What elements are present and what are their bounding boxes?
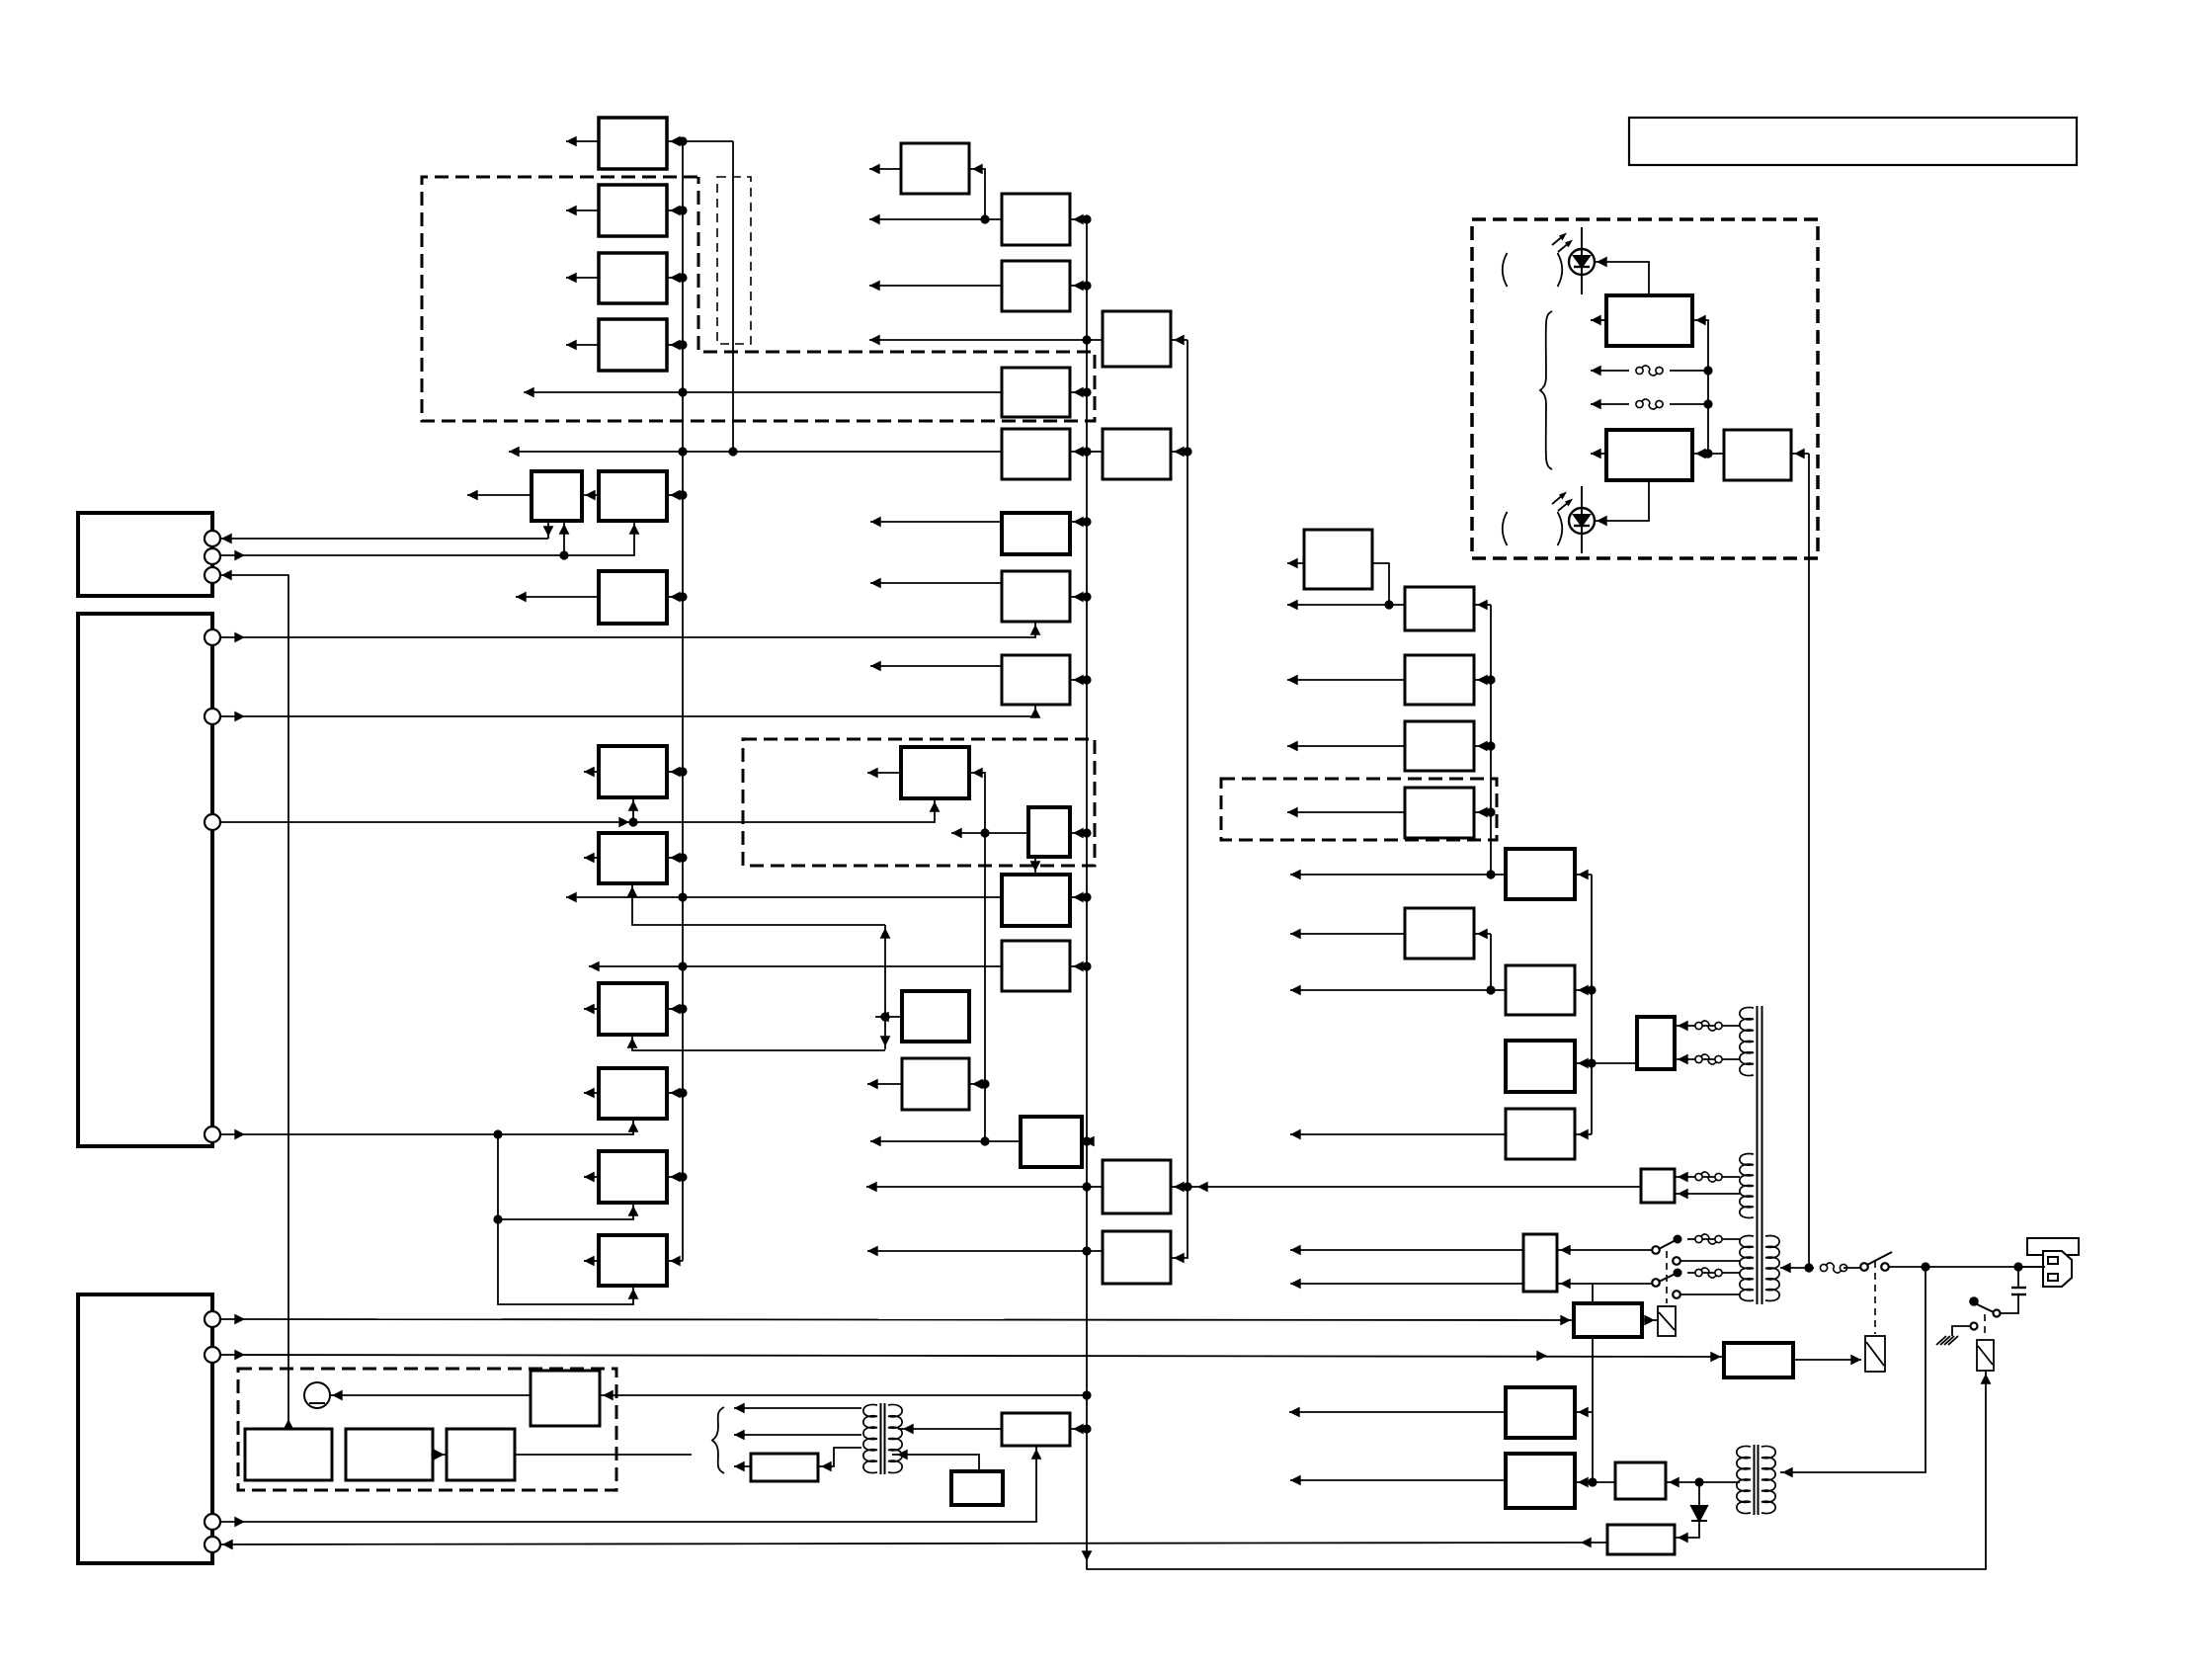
arrowhead U3 output xyxy=(566,273,577,284)
block U39 (in dashed enclosure C) xyxy=(1405,788,1474,838)
wire net y344 xyxy=(869,339,1103,341)
arrowhead into T2 sec tap2 xyxy=(897,1450,908,1460)
arrowhead up into U8 bottom xyxy=(628,800,639,811)
wire U60 output east xyxy=(515,1454,692,1456)
dashed enclosure C (around U24) xyxy=(1221,779,1497,840)
block U44 xyxy=(1506,1109,1575,1159)
junction x1720 y1500 xyxy=(1694,1477,1703,1486)
wire vertical x1611 xyxy=(1591,875,1593,1134)
wire diode D1 bottom lead xyxy=(1675,1521,1699,1538)
wire U35 right elbow xyxy=(1372,563,1389,605)
wire S4 alt to T1C xyxy=(1680,1293,1740,1295)
transformer T2 secondary xyxy=(888,1404,902,1472)
LED D2 (top indicator) emission arrow 2 xyxy=(1558,240,1573,253)
wire U12 right stub xyxy=(667,1176,683,1178)
dashed enclosure D (servo group, bottom left) xyxy=(238,1369,616,1490)
transformer T1 primary (right) xyxy=(1765,1235,1779,1300)
junction x1202 y1201 xyxy=(1183,1182,1191,1191)
wire vertical x896 xyxy=(884,925,886,1049)
arrowhead into U53 right xyxy=(1578,1407,1589,1418)
arrowhead into U50 left xyxy=(1560,1315,1571,1326)
arrowhead into U48 y1072 xyxy=(1678,1054,1688,1065)
arrowhead U8 output xyxy=(584,767,595,778)
switch S3 throw circle xyxy=(1652,1246,1660,1254)
wire J1-2 to U5/U6 bottoms xyxy=(221,521,634,555)
block U25 xyxy=(1002,655,1070,705)
paren left of D2 xyxy=(1503,253,1508,287)
dashed relay link K1 xyxy=(1874,1261,1876,1334)
wire U8 output left xyxy=(584,771,599,773)
wire vertical x1949 xyxy=(1780,1267,1925,1472)
pin circle J2-4 xyxy=(205,1127,220,1142)
wire U11 right stub xyxy=(667,1092,683,1094)
wire net y1500 b xyxy=(1666,1481,1738,1483)
breaker T1A y1038 xyxy=(1695,1021,1722,1031)
arrowhead up into relay K2 xyxy=(1981,1374,1992,1384)
wire net y945 xyxy=(1290,933,1405,935)
arrowhead net y755 left end xyxy=(1287,741,1298,752)
brace left of T2 xyxy=(712,1407,724,1473)
junction x691 y908 xyxy=(678,892,687,901)
arrowhead net y1498 left end xyxy=(1290,1475,1301,1486)
wire net y1299 through U52 xyxy=(1557,1283,1652,1285)
dashed enclosure A inner box xyxy=(717,177,751,344)
arrowhead into U7 right xyxy=(670,592,681,603)
block U40 xyxy=(1405,908,1474,959)
switch S1 contact a xyxy=(1860,1263,1868,1271)
wire U5 bottom pin b xyxy=(563,521,565,555)
block U9 xyxy=(599,833,667,883)
pin circle J3-3 xyxy=(205,1514,220,1530)
wire T1C tap y1254 xyxy=(1687,1238,1740,1240)
switch S3 alt throw xyxy=(1673,1257,1680,1265)
wire net y397 to U21 xyxy=(524,391,1002,393)
block U31 xyxy=(1103,311,1171,367)
junction x1611 y1076 xyxy=(1587,1058,1596,1067)
arrowhead net y945 left end xyxy=(1290,929,1301,940)
junction x1100 y457 xyxy=(1082,447,1091,456)
wire U14 right elbow xyxy=(969,169,985,219)
wire vertical x1612 lower xyxy=(1592,1337,1594,1482)
junction x1406 y612 xyxy=(1384,600,1393,609)
wire plug feed xyxy=(2018,1266,2045,1268)
junction x691 y978 xyxy=(678,961,687,970)
wire U47 right stub xyxy=(1791,453,1809,455)
wire T1C tap y1288 xyxy=(1687,1272,1740,1274)
arrowhead into U46 right xyxy=(1695,449,1706,459)
block U13 xyxy=(599,1235,667,1286)
wire vertical x1831 xyxy=(1808,454,1810,1268)
arrowhead U46 output xyxy=(1591,449,1601,459)
wire J2-1 to U24 bottom xyxy=(221,622,1035,637)
junction x997 y1155 xyxy=(980,1136,989,1145)
pin circle J3-2 xyxy=(205,1347,220,1363)
wire net y688 xyxy=(1287,679,1405,681)
wire U32 right stub xyxy=(1171,451,1188,453)
wire U1 output left xyxy=(566,140,599,142)
wire U27 right stub xyxy=(1070,896,1087,898)
arrowhead up into U5 bottom xyxy=(559,524,570,535)
block U24 xyxy=(1002,571,1070,622)
arrowhead U11 output xyxy=(584,1088,595,1099)
junction x1100 y1412 xyxy=(1082,1390,1091,1399)
wire LED fuse net y375 b xyxy=(1670,370,1708,372)
arrowhead into U61 right xyxy=(603,1390,614,1401)
wire riser x504 to U13 xyxy=(498,1219,633,1304)
arrowhead into U40 right xyxy=(1477,929,1488,940)
block U37 xyxy=(1405,655,1474,705)
block U45 (LED driver top) xyxy=(1606,295,1692,346)
wire U11 output left xyxy=(584,1092,599,1094)
block U51 (to relay K1) xyxy=(1724,1343,1793,1377)
wire U4 right stub xyxy=(667,344,683,346)
wire J2-4 to U11 bottom xyxy=(221,1119,633,1134)
arrowhead into U6 right xyxy=(670,490,681,501)
arrowhead into U14 right xyxy=(972,164,983,175)
block U14 xyxy=(901,143,969,194)
arrowhead net y528 left end xyxy=(870,517,881,528)
wire net y843 xyxy=(951,832,1028,834)
wire net y1412 xyxy=(600,1394,1087,1396)
wire T2 pri tap 1 xyxy=(734,1407,861,1409)
wire U23 right stub xyxy=(1070,521,1087,523)
arrowhead into U44 right xyxy=(1578,1129,1589,1140)
diode D1 xyxy=(1691,1506,1707,1521)
block U48 (fused supply) xyxy=(1637,1017,1675,1069)
transformer T1 winding B xyxy=(1740,1153,1754,1217)
block U47 xyxy=(1724,430,1791,480)
arrowhead LED net y409 xyxy=(1591,399,1601,410)
junction x997 y843 xyxy=(980,828,989,837)
block U36 xyxy=(1405,587,1474,630)
arrowhead net y1155 left end xyxy=(870,1136,881,1147)
wire S4 wiring net y1299 xyxy=(1290,1283,1523,1285)
ground symbol xyxy=(1936,1336,1958,1345)
arrowhead U10 output xyxy=(584,1004,595,1015)
wire vertical bus x1100 xyxy=(1087,219,1986,1569)
wire U13 output left xyxy=(584,1260,599,1262)
arrowhead net y612 left end xyxy=(1287,600,1298,611)
wire U17 right stub xyxy=(969,1083,985,1085)
arrowhead T2 tap2 xyxy=(734,1430,745,1441)
block U8 xyxy=(599,746,667,797)
wire net y978 xyxy=(589,965,1002,967)
dashed enclosure E (LED panel, top right) xyxy=(1472,219,1818,558)
arrowhead up into U10 bottom xyxy=(627,1038,638,1048)
switch S2 contact xyxy=(1994,1310,2001,1317)
wire U3 right stub xyxy=(667,277,683,279)
junction x1100 y344 xyxy=(1082,335,1091,344)
wire U1 right stub xyxy=(667,140,683,142)
junction x1100 y397 xyxy=(1082,387,1091,396)
arrowhead into U52 right y1299 xyxy=(1560,1279,1571,1290)
arrowhead J2-3 direction xyxy=(618,817,629,828)
wire U31 right elbow xyxy=(1171,340,1188,1258)
paren left of D3 xyxy=(1503,512,1508,545)
brace left of LED drivers xyxy=(1540,311,1552,469)
arrowhead up on riser x292 xyxy=(284,1419,294,1430)
arrowhead U57 output xyxy=(734,1461,745,1472)
wire J3-4 from U56 xyxy=(221,1543,1607,1544)
wire net y1266 west xyxy=(867,1250,1103,1252)
wire U35 left stub xyxy=(1287,562,1304,564)
arrowhead up into U30 bottom xyxy=(1031,1449,1042,1460)
wire U20 right stub xyxy=(1070,285,1087,287)
junction x691 y143 xyxy=(678,136,687,145)
arrowhead U2 output xyxy=(566,206,577,216)
junction x997 y1097 xyxy=(980,1079,989,1088)
junction x691 y868 xyxy=(678,853,687,862)
arrowhead into U30 right xyxy=(1073,1424,1084,1435)
wire riser x504 to U12 xyxy=(498,1134,633,1219)
junction x1100 y843 xyxy=(1082,828,1091,837)
block U21 (in dashed corridor) xyxy=(1002,368,1070,417)
wire cap bottom lead xyxy=(2001,1294,2018,1313)
wire link U1 to x742 xyxy=(683,140,733,142)
wire U10 output left xyxy=(584,1008,599,1010)
wire T1B tap y1208 xyxy=(1675,1193,1740,1195)
arrowhead up x896 top xyxy=(880,928,891,939)
arrowhead up into U13 bottom xyxy=(628,1289,639,1299)
arrowhead into M1 xyxy=(332,1390,343,1401)
wire vertical x742 xyxy=(732,141,734,452)
arrowhead into U11 right xyxy=(670,1088,681,1099)
arrowhead into LED D3 xyxy=(1597,516,1607,527)
wire ground link xyxy=(1952,1326,1970,1336)
arrowhead into U60 xyxy=(434,1450,445,1460)
arrowhead into U33 right xyxy=(1174,1182,1185,1193)
junction x691 y1191 xyxy=(678,1172,687,1181)
wire U15 output left xyxy=(867,772,901,774)
arrowhead net y1429 left end xyxy=(1289,1407,1300,1418)
arrowhead T2 tap1 xyxy=(734,1403,745,1414)
wire T2 pri tap 2 xyxy=(734,1434,861,1436)
junction x691 y349 xyxy=(678,340,687,349)
wire vertical x1509 xyxy=(1490,605,1492,875)
arrowhead U15 output xyxy=(867,768,878,779)
paren right of D3 xyxy=(1558,512,1563,545)
arrowhead U7 output xyxy=(516,592,527,603)
wire U51 to K1 xyxy=(1793,1359,1861,1361)
arrowhead into K1 xyxy=(1850,1355,1861,1366)
arrowhead into U19 right xyxy=(1073,214,1084,225)
breaker T1C y1288 xyxy=(1695,1268,1722,1278)
junction x1100 y528 xyxy=(1082,517,1091,526)
junction x1202 y457 xyxy=(1183,447,1191,456)
junction x1611 y1002 xyxy=(1587,985,1596,994)
arrowhead U16 output xyxy=(878,1012,889,1023)
wire T3 sec tap xyxy=(1738,1481,1740,1483)
wire J2-2 to U25 bottom xyxy=(221,705,1035,716)
arrowhead into U26 right xyxy=(1073,828,1084,839)
arrowhead net y590 left end xyxy=(870,578,881,589)
wire U48 to U43 xyxy=(1575,1062,1637,1064)
block U20 xyxy=(1002,261,1070,311)
arrowhead into U24 right xyxy=(1073,592,1084,603)
wire U15 right elbow xyxy=(969,773,985,833)
pin circle J1-2 xyxy=(205,548,220,564)
breaker T1B y1191 xyxy=(1695,1172,1722,1182)
arrowhead net y978 left end xyxy=(589,961,600,972)
arrowhead into U10 right xyxy=(670,1004,681,1015)
arrowhead net y222 left end xyxy=(869,214,880,225)
wire T2 sec tap 2 to U18 xyxy=(892,1455,979,1471)
arrowhead up into U12 bottom xyxy=(628,1206,639,1216)
wire AC line y1283 b xyxy=(1843,1267,1861,1269)
junction J1-2 x571 xyxy=(559,550,568,559)
breaker AC line xyxy=(1820,1263,1846,1273)
block U11 xyxy=(599,1068,667,1119)
wire net y674 xyxy=(870,665,1002,667)
pin circle J3-1 xyxy=(205,1311,220,1327)
block U28 xyxy=(1002,941,1070,991)
block U7 xyxy=(599,571,667,624)
relay K4 xyxy=(1658,1306,1676,1336)
block U30 xyxy=(1002,1413,1070,1446)
block U61 (motor drive) xyxy=(531,1371,600,1426)
transformer T1 winding A xyxy=(1740,1007,1754,1075)
block U4 xyxy=(599,319,667,371)
wire U8 right stub xyxy=(667,771,683,773)
dashed enclosure A (top-left block group with corridor) xyxy=(422,177,1095,421)
arrowhead into U41 right xyxy=(1578,870,1589,880)
block U54 xyxy=(1506,1454,1575,1508)
wire S3 blade xyxy=(1659,1239,1678,1249)
junction x504 y1234 xyxy=(493,1214,502,1223)
junction x691 y781 xyxy=(678,767,687,776)
wire net y459 U46-U47 xyxy=(1692,453,1724,455)
arrowhead into T1 primary xyxy=(1780,1263,1791,1274)
switch S1 contact b xyxy=(1881,1263,1889,1271)
wire net y1148 xyxy=(1290,1133,1506,1135)
arrowhead U5 output xyxy=(467,490,478,501)
LED D3 (bottom indicator) emission arrow 1 xyxy=(1552,492,1567,505)
LED D3 (bottom indicator) xyxy=(1569,486,1595,553)
arrowhead net y397 left end xyxy=(524,387,534,398)
arrowhead into J1-1 xyxy=(221,534,232,544)
arrowhead into U57 right xyxy=(821,1461,832,1472)
arrowhead net y289 left end xyxy=(869,281,880,292)
wire net y1155 xyxy=(870,1140,1021,1142)
wire net y1201 west xyxy=(866,1186,1103,1188)
wire LED fuse net y409 xyxy=(1591,403,1629,405)
junction x1100 y908 xyxy=(1082,892,1091,901)
transformer T1 winding C xyxy=(1740,1235,1754,1300)
wire U2 output left xyxy=(566,209,599,211)
junction x1100 y1266 xyxy=(1082,1246,1091,1255)
arrowhead J2-2 direction xyxy=(234,711,245,722)
arrowhead into U21 right xyxy=(1073,387,1084,398)
arrowhead into U12 right xyxy=(670,1172,681,1183)
wire LED fuse net y409 b xyxy=(1670,403,1708,405)
wire net y1446 (T2 sec to U30) xyxy=(898,1428,1002,1430)
wire J3-1 to U50 xyxy=(221,1319,1574,1320)
arrowhead net y1201 left end xyxy=(866,1182,877,1193)
wire S2 blade xyxy=(1975,1303,1994,1312)
wire U26 right stub xyxy=(1070,832,1087,834)
arrowhead into U37 right xyxy=(1477,675,1488,686)
junction x1100 y688 xyxy=(1082,675,1091,684)
wire U12 output left xyxy=(584,1176,599,1178)
wire U24 right stub xyxy=(1070,596,1087,598)
wire J1-3 riser x292 xyxy=(219,575,288,1429)
wire U44 right stub xyxy=(1575,1133,1592,1135)
arrowhead U35 output xyxy=(1287,558,1298,569)
block U32 xyxy=(1103,429,1171,479)
transformer T2 core xyxy=(881,1403,885,1474)
junction x1729 y375 xyxy=(1703,366,1712,375)
block U41 xyxy=(1506,849,1575,899)
arrowhead U14 output xyxy=(869,164,880,175)
junction x691 y457 xyxy=(678,447,687,456)
block U53 (regulator) xyxy=(1506,1387,1575,1438)
pin circle J2-1 xyxy=(205,629,220,645)
arrowhead into U39 right xyxy=(1477,807,1488,818)
block U57 xyxy=(751,1454,818,1481)
arrowhead J3-2 direction xyxy=(234,1350,245,1361)
block U22 xyxy=(1002,429,1070,479)
arrowhead into U47 right xyxy=(1794,449,1805,459)
block U49 xyxy=(1641,1169,1675,1203)
wire S4 blade xyxy=(1659,1273,1678,1282)
arrowhead into U28 right xyxy=(1073,961,1084,972)
wire U10 bottom pin xyxy=(632,1035,885,1050)
wire J1-1 from U5 bottom xyxy=(547,521,549,539)
arrowhead into U51 left xyxy=(1710,1352,1721,1363)
wire U45 right elbow xyxy=(1692,320,1708,454)
wire AC line y1283 xyxy=(1780,1267,1814,1269)
block U10 xyxy=(599,983,667,1035)
block U27 xyxy=(1002,875,1070,926)
arrowhead U9 output xyxy=(584,853,595,864)
arrowhead net y1299 left end xyxy=(1290,1279,1301,1290)
wire U53 right stub xyxy=(1575,1411,1593,1413)
wire S1 blade xyxy=(1867,1252,1892,1265)
arrowhead into U15 right xyxy=(972,768,983,779)
arrowhead into U4 xyxy=(670,340,681,351)
junction x691 y604 xyxy=(678,592,687,601)
junction x504 y1148 xyxy=(493,1129,502,1138)
arrowhead into U49 y1191 xyxy=(1678,1172,1688,1183)
arrowhead mid net y1561 xyxy=(1581,1538,1592,1548)
wire U61 to M1 xyxy=(330,1394,531,1396)
wire U10 right stub xyxy=(667,1008,683,1010)
block U52 (line filter) xyxy=(1523,1234,1557,1292)
wire U9 right stub xyxy=(667,857,683,859)
arrowhead net y1265 left end xyxy=(1290,1245,1301,1256)
junction x1508 y885 xyxy=(1486,870,1495,878)
arrowhead up into U9 bottom xyxy=(627,886,638,897)
arrowhead into U23 right xyxy=(1073,517,1084,528)
wire J2-3 to U15 bottom xyxy=(221,798,935,822)
capacitor C1 xyxy=(2011,1288,2026,1294)
block U43 xyxy=(1506,1041,1575,1092)
transformer T1 core xyxy=(1758,1006,1762,1304)
junction x1509 y822 xyxy=(1486,807,1495,816)
junction x1612 y1500 xyxy=(1588,1477,1597,1486)
wire cap lead xyxy=(2017,1267,2019,1287)
block U26 xyxy=(1028,807,1070,857)
wire T1A tap y1072 xyxy=(1675,1058,1740,1060)
wire vertical x1612 upper xyxy=(1592,1284,1594,1303)
arrowhead up into U15 bottom xyxy=(930,801,941,812)
wire net y1265 east xyxy=(1290,1249,1523,1251)
junction x1100 y604 xyxy=(1082,592,1091,601)
block U55 (rectifier) xyxy=(1615,1462,1666,1499)
wire U29 right stub xyxy=(1082,1140,1087,1142)
arrowhead up into U6 bottom xyxy=(629,524,640,535)
arrowhead U12 output xyxy=(584,1172,595,1183)
